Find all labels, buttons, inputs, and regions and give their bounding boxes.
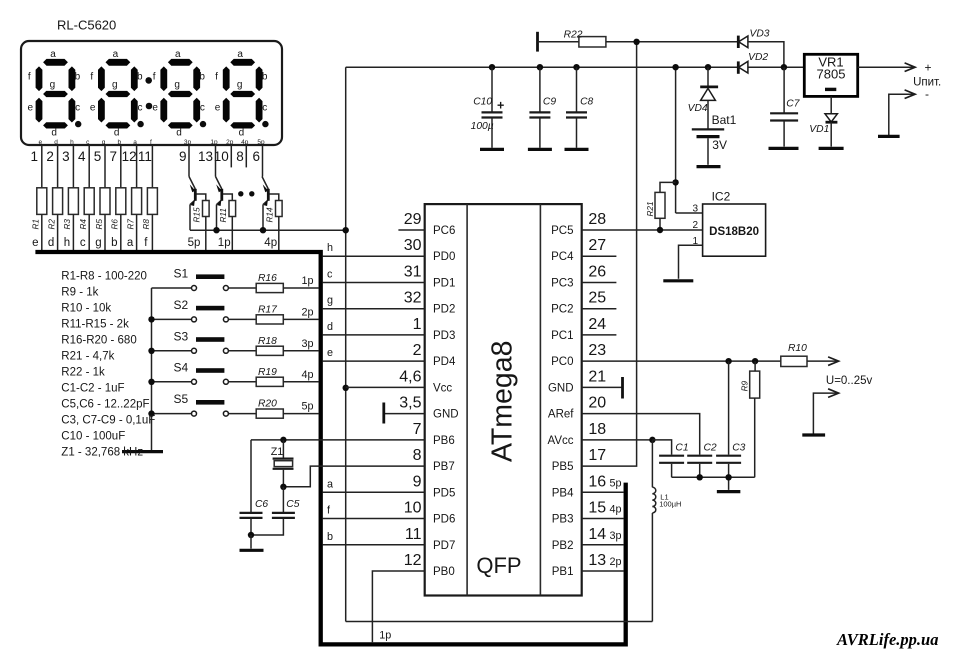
svg-text:3p: 3p [301,338,313,350]
wire pin 16 to bus [582,491,624,493]
svg-text:14: 14 [588,526,606,543]
wire C5 top [282,487,284,512]
svg-text:R9: R9 [741,380,750,391]
svg-text:R5: R5 [95,219,104,230]
svg-text:1p: 1p [379,630,391,642]
svg-text:100µH: 100µH [659,500,681,509]
svg-text:f: f [90,71,93,82]
ground (C10) [480,148,504,151]
wire pin 28 PC5 to IC2 [582,229,703,231]
resistor R18 [256,346,283,355]
resistor R3 [68,188,78,215]
stub pin 26 [582,281,617,283]
svg-text:PB6: PB6 [433,435,455,447]
svg-text:30: 30 [404,237,422,254]
svg-text:5p: 5p [188,237,201,249]
svg-text:a: a [175,49,181,60]
wire bus to pin 32 net g [322,308,424,310]
wire C2 bottom [699,464,701,477]
svg-text:R22 - 1k: R22 - 1k [61,367,105,379]
resistor R6 [116,188,126,215]
svg-text:4p: 4p [301,369,313,381]
switch common rail [151,288,153,450]
svg-text:e: e [215,103,221,114]
svg-text:3p: 3p [610,530,622,542]
wire display pin 1 to R [41,145,43,188]
capacitor C8 [566,111,587,113]
wire R17 to bus, net 2p [283,318,319,320]
junction PC0/R9 [752,358,758,364]
svg-text:f: f [150,139,152,146]
wire pin 15 to bus [582,518,624,520]
junction branch split [672,179,678,185]
wire Bat1 to ground [707,138,709,165]
svg-text:12: 12 [122,149,137,164]
svg-text:21: 21 [588,368,606,385]
svg-text:26: 26 [588,263,606,280]
svg-text:PD6: PD6 [433,514,455,526]
svg-text:R1: R1 [32,219,41,229]
capacitor C6 [240,512,263,514]
main +V rail [346,66,738,68]
svg-text:C1: C1 [675,442,688,453]
resistor R17 [256,315,283,324]
svg-text:2: 2 [46,149,54,164]
ground (C9) [528,148,552,151]
svg-text:PB0: PB0 [433,566,455,578]
svg-text:a: a [50,49,56,60]
capacitor C5 [272,512,295,514]
stub display pin 10 [230,145,232,167]
wire R2 to bus [57,214,59,250]
wire C10 top [491,67,493,112]
diode VD3 [737,36,740,48]
wire R21 to PC5 [659,218,661,230]
svg-text:a: a [237,49,243,60]
transistor VT (pin13) with resistor R11, net 1p [216,177,222,190]
wire C3 bottom to ground [728,464,730,490]
svg-text:a: a [327,478,333,490]
stub pin 24 [582,334,617,336]
svg-text:h: h [327,242,333,254]
svg-text:VD1: VD1 [809,124,829,135]
svg-text:PD4: PD4 [433,356,456,368]
svg-text:1p: 1p [218,237,231,249]
svg-text:+: + [924,61,931,75]
svg-text:R17: R17 [258,304,278,315]
junction rail C10 [489,64,495,70]
svg-text:GND: GND [433,409,459,421]
switch S3 [152,350,192,352]
svg-text:C8: C8 [580,97,593,108]
svg-text:d: d [114,128,120,139]
wire C9 top [539,67,541,112]
svg-text:C9: C9 [543,97,556,108]
resistor R21 [655,192,665,218]
wire display pin 3 to R [72,145,74,188]
junction R22/PB5 [633,39,639,45]
svg-text:27: 27 [588,237,606,254]
transistor VT (pin9) with resistor R15, net 5p [189,177,195,190]
svg-text:Bat1: Bat1 [712,113,737,127]
capacitor C1 [659,455,684,457]
svg-text:PB7: PB7 [433,461,455,473]
display module body [21,41,282,145]
resistor R9 [750,371,760,398]
svg-text:C2: C2 [704,442,717,453]
svg-text:d: d [54,139,58,146]
svg-text:6: 6 [252,149,260,164]
svg-text:R20: R20 [258,399,277,410]
svg-text:d: d [48,237,54,249]
wire Vcc link to L1 [346,621,653,623]
probe arrow [813,393,837,434]
svg-text:GND: GND [548,382,574,394]
svg-text:e: e [90,103,96,114]
svg-text:g: g [112,80,118,91]
svg-text:g: g [174,80,180,91]
svg-text:C3, C7-C9 - 0,1uF: C3, C7-C9 - 0,1uF [61,415,155,427]
wire display pin 13 down [215,145,217,177]
wire R16 to bus, net 1p [283,287,319,289]
svg-text:d: d [239,128,245,139]
svg-text:R1-R8 - 100-220: R1-R8 - 100-220 [61,271,147,283]
wire to R21 [660,182,676,192]
junction PC0/C3 [725,358,731,364]
svg-text:PC5: PC5 [551,225,573,237]
capacitor C7 [783,67,785,112]
svg-text:d: d [176,128,182,139]
svg-text:R16-R20 - 680: R16-R20 - 680 [61,335,136,347]
resistor R16 [256,283,283,292]
svg-text:f: f [28,71,31,82]
wire pin 18 AVcc [582,439,653,441]
svg-text:S4: S4 [174,360,189,374]
svg-text:7: 7 [110,149,118,164]
svg-text:C5,C6 - 12..22pF: C5,C6 - 12..22pF [61,399,149,411]
capacitor C2 [687,455,712,457]
junction rail VD4 branch [705,64,711,70]
svg-text:R16: R16 [258,273,277,284]
wire bus to pin 1 net d [322,334,424,336]
wire VD3 to rail [748,42,784,67]
resistor R5 [100,188,110,215]
wire R20 to bus, net 5p [283,413,319,415]
svg-text:Z1 - 32,768 kHz: Z1 - 32,768 kHz [61,447,143,459]
resistor R7 [132,188,142,215]
svg-text:4p: 4p [241,139,249,146]
switch S1 [152,287,192,289]
svg-text:C3: C3 [732,442,745,453]
svg-text:23: 23 [588,342,606,359]
wire C6/C5 bottoms [251,519,283,535]
svg-text:g: g [102,139,106,146]
switch S4 [152,381,192,383]
bus (thick net bundle) [35,252,625,644]
junction switch rail S5 [148,410,154,416]
wire bus to pin 10 net f [322,518,424,520]
svg-text:C6: C6 [255,499,268,510]
svg-text:5: 5 [94,149,102,164]
IC2 pin 3 wire [676,212,703,214]
svg-text:100µ: 100µ [471,121,494,132]
svg-text:20: 20 [588,395,606,412]
svg-text:1p: 1p [210,139,218,146]
svg-text:a: a [127,237,134,249]
svg-text:b: b [75,71,81,82]
wire Z1 bottom to pin 8 PB7 [283,466,424,487]
wire C7 to ground [783,121,785,147]
svg-text:12: 12 [404,552,422,569]
svg-text:4: 4 [78,149,86,164]
wire display pin 12 to R [136,145,138,188]
svg-text:R22: R22 [564,30,583,41]
svg-text:b: b [137,71,143,82]
wire VD4 to Bat1 [707,100,709,128]
svg-text:PC6: PC6 [433,225,455,237]
7-segment digit 1 [28,49,81,139]
svg-text:PC0: PC0 [551,356,573,368]
svg-text:b: b [327,531,333,543]
svg-text:13: 13 [588,552,606,569]
wire R6 to bus [120,214,122,250]
wire C8 bottom [576,118,578,148]
svg-text:b: b [262,71,268,82]
wire R3 to bus [72,214,74,250]
ground (crystal) [240,549,264,552]
wire pin 17 PB5 to R22 vertical [582,42,637,466]
wire terminal to R22 [538,41,579,43]
svg-text:U=0..25v: U=0..25v [826,375,873,387]
svg-text:C10: C10 [473,97,492,108]
svg-text:9: 9 [413,473,422,490]
junction switch rail S4 [148,379,154,385]
svg-text:24: 24 [588,316,606,333]
svg-text:PB4: PB4 [552,487,574,499]
wire C3 top [728,361,730,454]
junction Z1 top [280,437,286,443]
svg-text:PC3: PC3 [551,277,573,289]
junction rail IC2 branch [672,64,678,70]
svg-text:PB3: PB3 [552,514,574,526]
svg-text:7: 7 [413,421,422,438]
svg-text:AVcc: AVcc [548,435,574,447]
resistor R1 [37,188,47,215]
svg-text:C5: C5 [286,499,299,510]
svg-text:2p: 2p [610,556,622,568]
junction T3 emitter [260,227,266,233]
svg-text:f: f [153,71,156,82]
wire AVcc to C1 [652,440,671,455]
ellipsis dots (omitted drivers) [238,191,243,196]
wire rail to VD4 [707,67,709,86]
ground (probe) [802,433,825,436]
IC U1 ATmega8 body [425,204,582,595]
svg-text:g: g [50,80,56,91]
output + arrow [858,66,914,68]
svg-text:R21: R21 [646,201,655,216]
svg-text:28: 28 [588,211,606,228]
svg-text:PD0: PD0 [433,251,455,263]
wire C8 top [576,67,578,112]
svg-text:5p: 5p [301,401,313,413]
wire pin 20 ARef to C2 [582,414,700,455]
svg-text:1: 1 [31,149,39,164]
junction VD3/C7/VR1 node [781,64,787,70]
svg-text:R14: R14 [265,207,274,222]
svg-text:1p: 1p [301,275,313,287]
cap bottom rail [672,476,755,478]
IC U2 DS18B20 body [703,204,766,256]
stub pin 29 PC6 [398,229,424,231]
svg-text:8: 8 [236,149,244,164]
svg-text:e: e [28,103,34,114]
GND stub pin 21 [582,386,623,388]
svg-text:29: 29 [404,211,422,228]
svg-text:Vcc: Vcc [433,382,452,394]
svg-text:5p: 5p [257,139,265,146]
svg-text:h: h [64,237,70,249]
junction C6 bottom [248,532,254,538]
wire C1 bottom [671,464,673,477]
svg-text:8: 8 [413,447,422,464]
wire bus to pin 9 net a [322,491,424,493]
svg-text:R21 - 4,7k: R21 - 4,7k [61,351,114,363]
wire display pin 11 to R [151,145,153,188]
svg-text:PD1: PD1 [433,277,455,289]
svg-text:16: 16 [588,473,606,490]
svg-text:e: e [32,237,38,249]
svg-text:3p: 3p [184,139,192,146]
svg-text:Z1: Z1 [271,446,284,458]
resistor R4 [84,188,94,215]
svg-text:R4: R4 [79,219,88,230]
stub pin 25 [582,308,617,310]
svg-text:7805: 7805 [817,67,846,82]
wire rail to R21/IC2 branch [675,67,677,213]
junction AVcc [649,437,655,443]
stub pin 27 [582,255,617,257]
wire pin 23 PC0 output line [582,360,781,362]
svg-text:IC2: IC2 [712,189,731,203]
svg-text:C10 - 100uF: C10 - 100uF [61,431,125,443]
svg-text:VD2: VD2 [748,52,768,63]
svg-text:g: g [95,237,101,249]
svg-text:b: b [111,237,117,249]
svg-text:9: 9 [179,149,187,164]
svg-text:2: 2 [413,342,422,359]
svg-text:10: 10 [404,500,422,517]
wire R18 to bus, net 3p [283,350,319,352]
svg-text:g: g [237,80,243,91]
svg-text:AVRLife.pp.ua: AVRLife.pp.ua [836,630,938,649]
svg-text:3: 3 [692,204,698,215]
7-segment digit 2 [90,49,143,139]
wire R1 to bus [41,214,43,250]
wire bus to pin 31 net c [322,281,424,283]
wire bus to pin 2 net e [322,360,424,362]
wire C10 bottom [491,118,493,148]
wire VR1 gnd to VD1 [830,96,832,113]
ground (Bat1) [697,165,721,168]
output - arrow [889,94,914,135]
svg-text:3V: 3V [712,138,727,152]
svg-text:b: b [199,71,205,82]
junction Vcc x collector rail [343,227,349,233]
ground (VD1) [819,147,844,150]
svg-text:PC1: PC1 [551,330,573,342]
crystal Z1 [273,458,294,460]
wire display pin 6 down [262,145,264,177]
svg-text:R15: R15 [192,207,201,222]
junction R21 on PC5 wire [657,227,663,233]
resistor R20 [256,409,283,418]
wire R8 to bus [151,214,153,250]
svg-text:C1-C2 - 1uF: C1-C2 - 1uF [61,383,124,395]
wire VD1 to ground [830,122,832,146]
wire AVcc to L1 [651,440,653,487]
svg-text:R8: R8 [142,219,151,230]
wire pin 13 to bus [582,570,624,572]
svg-text:4,6: 4,6 [399,368,421,385]
capacitor C3 [716,455,741,457]
svg-text:18: 18 [588,421,606,438]
svg-text:3,5: 3,5 [399,395,421,412]
Vcc vertical line [345,67,347,621]
junction switch rail S3 [148,348,154,354]
colon dots [145,77,152,84]
collector rail to Vcc line [190,229,346,231]
junction T2 emitter [213,227,219,233]
svg-text:C7: C7 [786,99,800,110]
voltage regulator VR1 7805 body [804,54,857,96]
wire display pin 9 down [188,145,190,177]
wire R22 to VD3 [606,41,738,43]
svg-text:R11: R11 [219,208,228,222]
svg-text:b: b [117,139,121,146]
svg-text:17: 17 [588,447,606,464]
wire Vcc to pin 4,6 [346,386,425,388]
inductor L1 100uH [652,487,655,493]
svg-text:2: 2 [692,220,698,231]
wire R19 to bus, net 4p [283,381,319,383]
switch S2 [152,318,192,320]
wire bus to pin 30 net h [322,255,424,257]
resistor R8 [147,188,157,215]
svg-text:a: a [113,49,119,60]
svg-text:QFP: QFP [476,553,521,578]
svg-text:VD4: VD4 [688,103,708,114]
svg-text:c: c [262,103,267,114]
transistor VT (pin6) with resistor R14, net 4p [262,177,268,190]
wire Z1 top to pin 7 PB6 [251,439,425,441]
svg-text:PD2: PD2 [433,304,455,316]
svg-text:32: 32 [404,290,422,307]
svg-text:2p: 2p [226,139,234,146]
wire C9 bottom [539,118,541,148]
resistor R22 [579,37,606,47]
wire R4 to bus [88,214,90,250]
svg-text:DS18B20: DS18B20 [709,226,759,238]
svg-text:c: c [75,103,80,114]
wire to crystal ground [250,535,252,549]
svg-text:15: 15 [588,500,606,517]
7-segment digit 3 [152,49,205,139]
wire bus to pin 11 net b [322,544,424,546]
wire display pin 4 to R [88,145,90,188]
ground (C7) [769,147,799,150]
svg-text:c: c [327,268,333,280]
